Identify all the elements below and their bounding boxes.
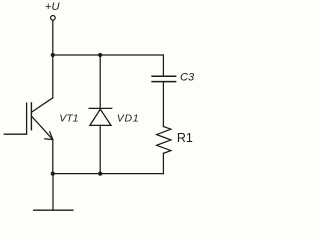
svg-text:C3: C3	[180, 72, 195, 84]
svg-text:R1: R1	[177, 131, 193, 145]
svg-text:VD1: VD1	[117, 112, 140, 124]
svg-text:VT1: VT1	[59, 112, 78, 124]
svg-text:+U: +U	[45, 1, 61, 13]
